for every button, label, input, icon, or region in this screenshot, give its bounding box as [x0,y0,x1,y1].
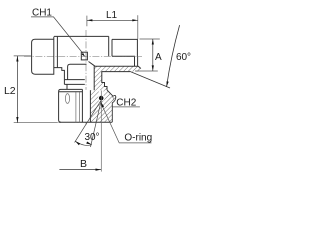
boss rounded [68,64,87,79]
washer [64,80,84,85]
svg-text:30°: 30° [84,132,99,143]
white bore band [83,90,90,122]
left stud (male thread) [32,39,54,74]
nut face lines [76,92,80,122]
A dimension [135,39,160,71]
svg-text:L1: L1 [106,10,118,21]
flange hatched section [89,62,141,91]
60 deg arc [167,25,180,87]
CH1 pointer square [81,52,87,60]
nut facet ellipse [65,94,69,104]
CH2 leader [112,106,139,108]
o-ring pocket [99,90,104,97]
CH1 leader [31,17,84,55]
nut crown curves [107,90,116,122]
right stud [112,39,137,57]
hex bottom and steps left [54,68,64,80]
nut section hatch right half [90,90,115,122]
svg-text:B: B [80,158,87,170]
seat line down to B [100,91,102,172]
body right edge [109,36,112,56]
L2 dimension [14,56,58,123]
nut outline [59,89,83,91]
B dimension [59,169,101,171]
svg-text:A: A [155,52,162,63]
O-ring leader [102,105,152,143]
svg-text:O-ring: O-ring [124,133,152,144]
nut inner edges [82,89,90,122]
L1 dimension [87,15,138,39]
svg-text:CH1: CH1 [32,8,52,19]
30 deg lines [75,101,102,147]
o-ring [99,96,104,101]
flange outline [89,62,141,69]
right neck to flange [135,57,138,67]
svg-text:L2: L2 [4,85,16,97]
svg-text:60°: 60° [176,52,191,63]
svg-text:CH2: CH2 [116,98,136,109]
body top edge [54,35,109,37]
hex face line left [54,37,58,68]
cone diagonal (60 deg leg) [130,71,171,88]
branch axis centerline [85,30,87,125]
run axis centerline [24,55,142,57]
neck left [66,84,68,89]
